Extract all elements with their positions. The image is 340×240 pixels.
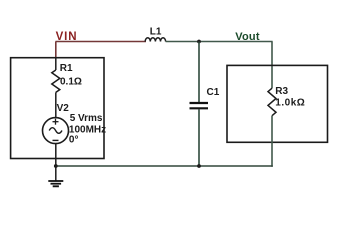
label R3 value 1.0kOhm <box>275 97 305 108</box>
wire R3 bottom lead (green) <box>271 116 273 167</box>
source V2 (AC source circle) <box>43 118 69 144</box>
node VIN <box>56 31 78 43</box>
wire Vout drop to R3 (green vertical) <box>271 42 273 89</box>
wire R1 top lead (black) <box>55 58 57 70</box>
svg-text:5 Vrms: 5 Vrms <box>70 113 103 124</box>
wire ground stem <box>55 166 57 181</box>
wire C1 top lead (green vertical) <box>198 42 200 103</box>
wire V2 bottom lead <box>55 144 57 166</box>
resistor R1 <box>52 70 60 92</box>
label R1 <box>60 63 73 74</box>
svg-text:V2: V2 <box>57 103 70 114</box>
svg-text:VIN: VIN <box>56 31 78 43</box>
svg-text:R3: R3 <box>275 86 288 97</box>
svg-text:1.0kΩ: 1.0kΩ <box>275 97 305 108</box>
svg-text:Vout: Vout <box>235 31 260 43</box>
junction at ground/V2 <box>54 164 58 168</box>
annotation box left (source) <box>11 58 104 159</box>
label R1 value 0.1Ohm <box>60 77 82 88</box>
node Vout <box>235 31 260 43</box>
label R3 <box>275 86 288 97</box>
resistor R3 <box>268 88 276 116</box>
svg-text:R1: R1 <box>60 63 73 74</box>
label V2 <box>57 103 70 114</box>
label C1 <box>207 87 220 98</box>
inductor L1 <box>145 38 165 42</box>
ground <box>48 181 63 186</box>
wire Vout rail (green, after L1) <box>166 41 273 43</box>
wire bottom return rail (green) <box>56 165 273 167</box>
capacitor C1 <box>190 103 209 108</box>
junction at Vout/C1 top <box>197 40 201 44</box>
label V2 value 100MHz <box>69 124 106 135</box>
label V2 value 5 Vrms <box>70 113 103 124</box>
svg-text:0.1Ω: 0.1Ω <box>60 77 82 88</box>
label L1 <box>150 27 162 38</box>
svg-text:L1: L1 <box>150 27 162 38</box>
wire R1 to V2 lead <box>55 92 57 117</box>
junction at C1 bottom <box>197 164 201 168</box>
svg-text:C1: C1 <box>207 87 220 98</box>
wire VIN drop (red vertical) <box>55 42 57 59</box>
svg-text:0°: 0° <box>69 134 79 145</box>
label V2 value 0 deg <box>69 134 79 145</box>
wire C1 bottom lead <box>198 109 200 166</box>
wire VIN rail (red, top left) <box>56 41 147 43</box>
annotation box right (load) <box>227 65 328 142</box>
